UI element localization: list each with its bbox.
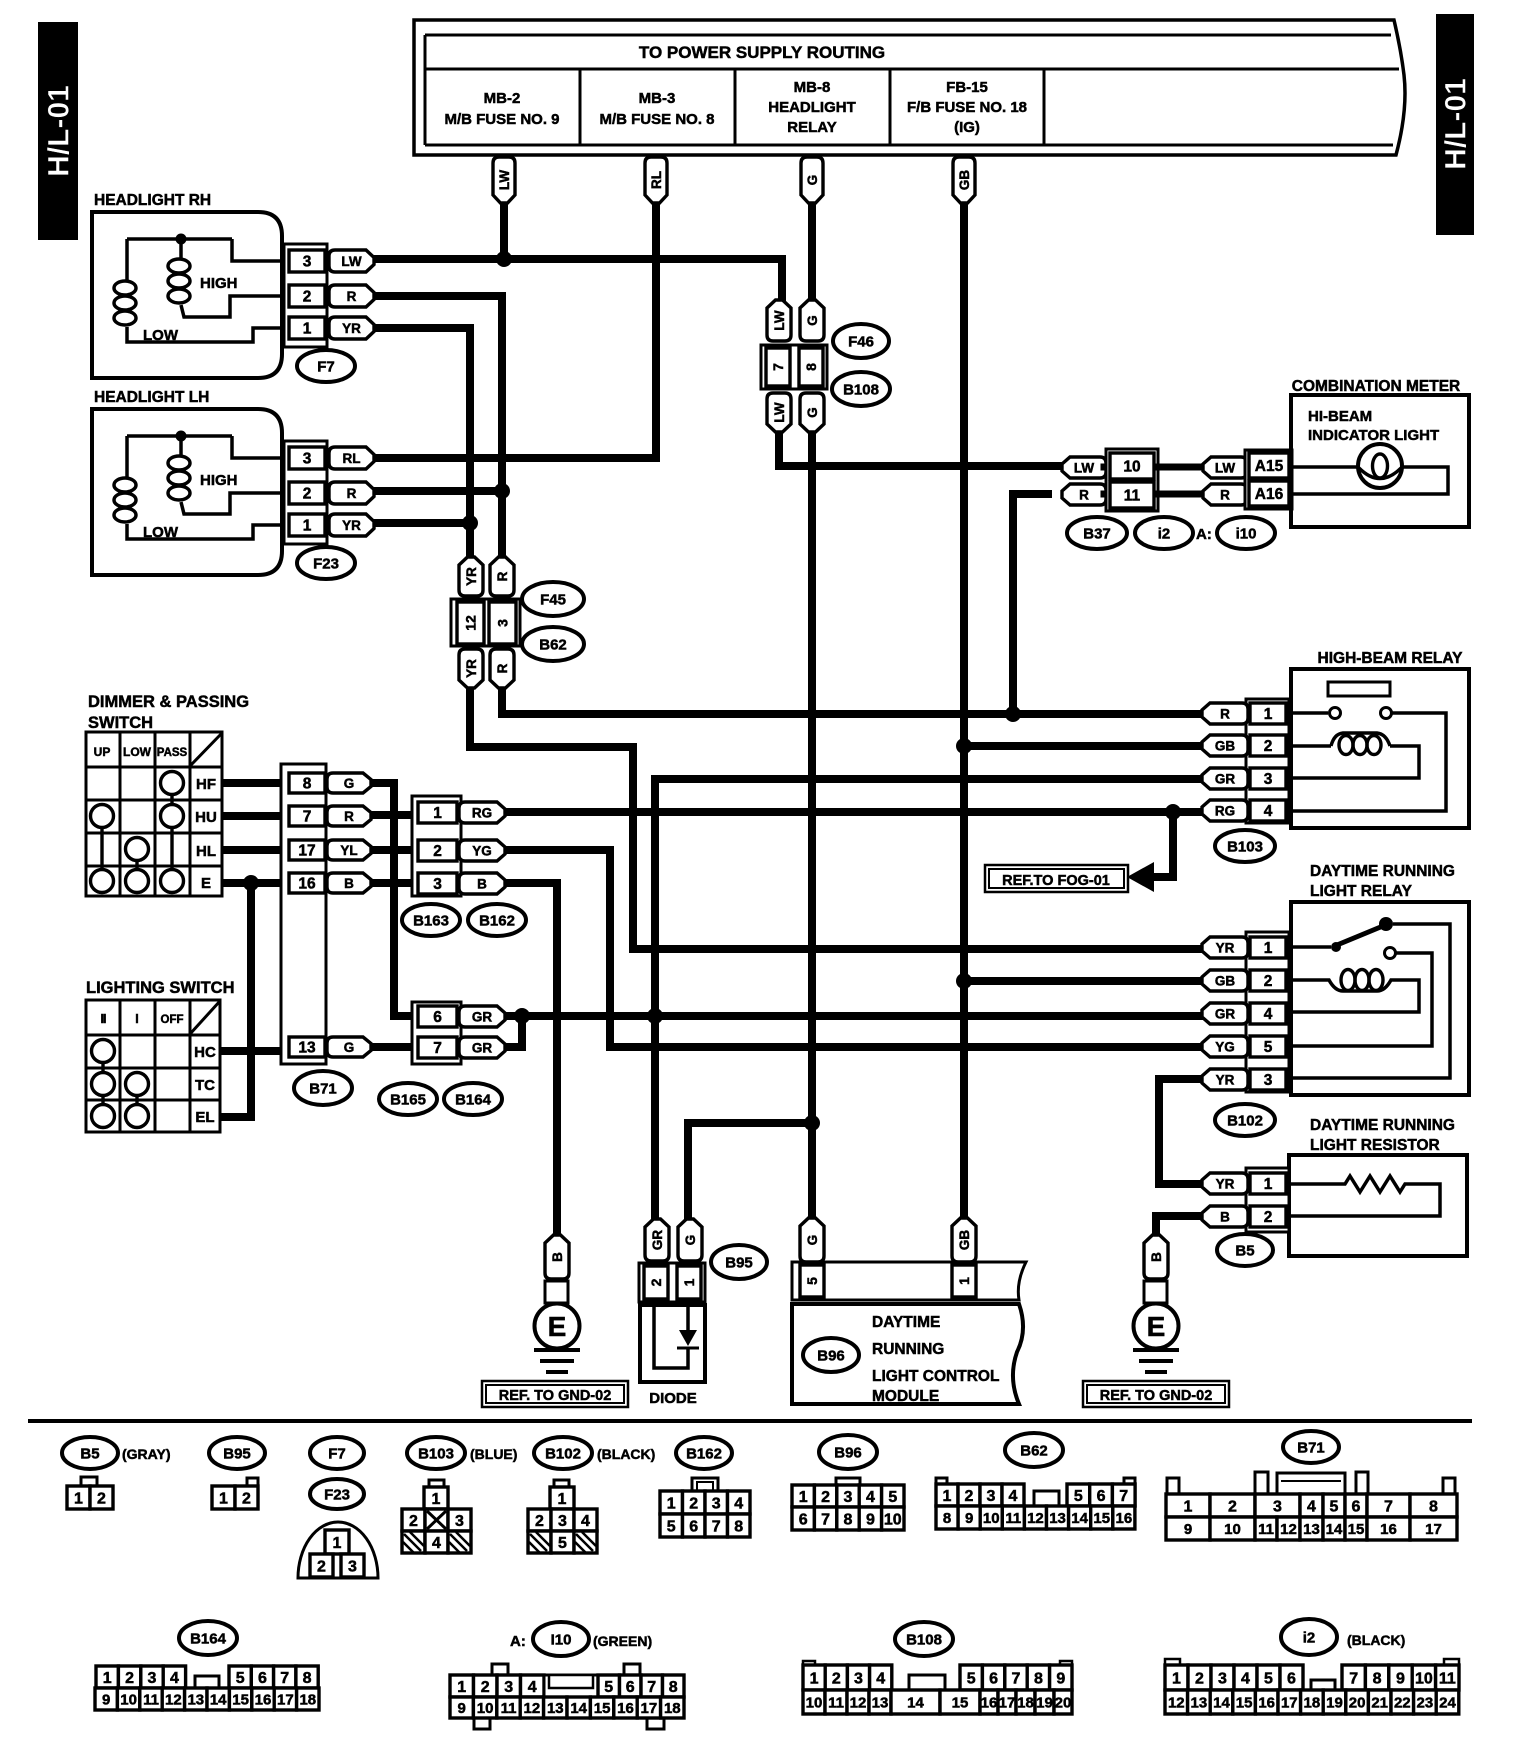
svg-text:YR: YR [342,321,361,336]
svg-text:REF.TO FOG-01: REF.TO FOG-01 [1002,873,1110,889]
svg-text:6: 6 [1287,1670,1296,1687]
wire R from B71 pin7 to B163 pin1 [369,811,420,819]
svg-text:8: 8 [803,363,819,371]
svg-text:8: 8 [734,1518,743,1535]
junction LW [496,251,512,267]
svg-text:TO POWER SUPPLY ROUTING: TO POWER SUPPLY ROUTING [639,43,885,62]
svg-text:3: 3 [854,1670,863,1687]
svg-text:2: 2 [648,1278,664,1286]
svg-text:9: 9 [102,1691,110,1708]
svg-text:2: 2 [433,843,442,860]
svg-text:B162: B162 [686,1445,722,1462]
svg-text:19: 19 [1036,1694,1053,1711]
wire LW from B108 pin7 to combination meter pin10 [779,430,1064,466]
svg-text:5: 5 [1074,1488,1083,1505]
svg-text:5: 5 [558,1535,567,1552]
svg-text:23: 23 [1417,1694,1434,1711]
svg-text:LW: LW [1215,460,1236,475]
svg-text:1: 1 [433,805,442,822]
svg-text:5: 5 [1330,1498,1339,1515]
svg-text:6: 6 [989,1670,998,1687]
page tag H/L-01 right [1436,14,1474,235]
svg-text:B5: B5 [80,1445,99,1462]
svg-text:E: E [1147,1311,1166,1342]
svg-text:5: 5 [1264,1039,1273,1056]
headlight RH [92,192,374,382]
svg-text:LW: LW [497,170,512,191]
svg-text:REF. TO GND-02: REF. TO GND-02 [499,1388,612,1404]
connector B163/B162 [402,796,526,936]
svg-text:1: 1 [810,1670,819,1687]
svg-text:E: E [201,875,211,892]
label REF. TO GND-02 [482,1381,628,1407]
wire YR from daytime running light relay pin3 to resistor pin1 [1159,1079,1204,1184]
svg-text:LW: LW [1074,460,1095,475]
svg-text:2: 2 [535,1513,544,1530]
relay switch and coil [1291,924,1450,1078]
svg-text:1: 1 [1264,1176,1273,1193]
connector B103 cells [1246,699,1289,823]
svg-text:7: 7 [1119,1488,1128,1505]
svg-text:(BLACK): (BLACK) [1347,1632,1405,1648]
svg-text:20: 20 [1349,1694,1366,1711]
svg-text:1: 1 [1264,940,1273,957]
svg-text:HF: HF [196,776,216,793]
wire YR from headlight LH pin1 [372,519,470,527]
wire GB from FB-15 down to DRL control module pin1 [960,202,968,1220]
wire R from headlight LH pin2 [372,487,502,495]
svg-text:17: 17 [1281,1694,1298,1711]
legend connector B162 [660,1437,750,1537]
wire YL from B71 pin17 to B163 pin2 [369,846,420,854]
svg-text:G: G [805,407,820,418]
svg-text:16: 16 [1380,1521,1397,1538]
svg-text:4: 4 [1264,803,1273,820]
svg-text:16: 16 [981,1694,998,1711]
svg-text:3: 3 [303,451,312,468]
svg-text:DIMMER & PASSING: DIMMER & PASSING [88,693,249,711]
headlight LH connector F23 [284,441,327,544]
svg-text:6: 6 [1097,1488,1106,1505]
svg-text:5: 5 [804,1277,820,1285]
svg-text:1: 1 [1184,1498,1193,1515]
svg-text:1: 1 [1172,1670,1181,1687]
svg-text:GR: GR [1215,771,1236,786]
svg-text:11: 11 [1005,1510,1021,1527]
legend connector B62 [936,1433,1135,1529]
svg-text:17: 17 [277,1691,294,1708]
svg-text:17: 17 [1425,1521,1442,1538]
svg-text:TC: TC [195,1077,215,1094]
svg-text:B71: B71 [1297,1439,1325,1456]
svg-text:8: 8 [844,1511,853,1528]
svg-text:RUNNING: RUNNING [872,1341,944,1358]
ground E [482,1235,628,1407]
svg-text:17: 17 [999,1694,1016,1711]
svg-text:7: 7 [280,1670,289,1687]
svg-text:7: 7 [1012,1670,1021,1687]
svg-text:PASS: PASS [157,747,188,759]
svg-text:GB: GB [957,1230,972,1251]
svg-text:19: 19 [1326,1694,1343,1711]
svg-text:2: 2 [317,1558,326,1575]
wire lighting switch HC to B71 pin13 [220,1047,289,1055]
svg-text:HIGH: HIGH [200,275,238,292]
svg-text:OFF: OFF [161,1014,184,1026]
wire GR from B164 pin6 to daytime running light relay pin4 [503,1012,1204,1020]
svg-text:11: 11 [1258,1521,1274,1538]
svg-text:3: 3 [558,1513,567,1530]
svg-text:M/B FUSE NO. 8: M/B FUSE NO. 8 [599,111,714,128]
svg-text:1: 1 [681,1278,697,1286]
svg-text:LOW: LOW [143,524,179,541]
svg-text:10: 10 [806,1694,823,1711]
svg-text:13: 13 [187,1691,204,1708]
svg-text:7: 7 [821,1511,830,1528]
svg-text:1: 1 [303,518,312,535]
svg-text:10: 10 [477,1700,494,1717]
svg-text:6: 6 [626,1679,635,1696]
junction GB daytime [956,973,972,989]
svg-text:20: 20 [1055,1694,1072,1711]
svg-text:3: 3 [1273,1498,1282,1515]
svg-text:B62: B62 [1020,1442,1048,1459]
page tag H/L-01 left [38,22,78,240]
svg-text:14: 14 [570,1700,587,1717]
svg-text:10: 10 [983,1510,1000,1527]
wire RL from MB-3 to headlight LH pin3 [372,202,656,458]
svg-text:1: 1 [219,1490,228,1507]
svg-text:16: 16 [1258,1694,1275,1711]
svg-text:F23: F23 [324,1486,350,1503]
svg-text:R: R [495,571,510,581]
svg-text:10: 10 [1123,459,1140,476]
svg-text:B95: B95 [223,1445,251,1462]
legend connector F7/F23 [298,1437,378,1578]
svg-text:3: 3 [348,1558,357,1575]
svg-text:1: 1 [74,1490,83,1507]
legend connector B103 (BLUE) [402,1437,517,1553]
svg-text:B102: B102 [1227,1112,1263,1129]
svg-text:G: G [805,315,820,326]
svg-text:10: 10 [1224,1521,1241,1538]
wire G from MB-8 to F46 pin8 [808,202,816,302]
svg-text:3: 3 [455,1513,464,1530]
resistor element [1289,1176,1440,1216]
svg-text:16: 16 [255,1691,272,1708]
svg-text:1: 1 [333,1535,342,1552]
wire R branch up to combination meter pin11 [1013,494,1048,714]
svg-text:3: 3 [712,1495,721,1512]
svg-text:LOW: LOW [143,327,179,344]
svg-text:B71: B71 [309,1080,337,1097]
svg-text:2: 2 [689,1495,698,1512]
svg-text:1: 1 [799,1489,808,1506]
wire B from resistor pin2 to ground [1156,1216,1204,1234]
svg-text:12: 12 [165,1691,182,1708]
svg-text:i2: i2 [1303,1629,1316,1646]
svg-text:2: 2 [125,1670,134,1687]
combination meter [1291,378,1469,527]
connector F45/B62 [451,557,584,688]
svg-text:A16: A16 [1255,486,1284,503]
svg-text:13: 13 [1049,1510,1066,1527]
svg-text:A:: A: [1196,526,1212,543]
svg-text:(BLUE): (BLUE) [470,1446,517,1462]
svg-text:G: G [805,1235,820,1246]
svg-text:2: 2 [1264,973,1273,990]
svg-text:12: 12 [1168,1694,1185,1711]
svg-text:DAYTIME: DAYTIME [872,1314,940,1331]
svg-text:RELAY: RELAY [787,119,836,136]
daytime running light relay [1202,863,1469,1136]
svg-text:4: 4 [866,1489,875,1506]
svg-text:i2: i2 [1158,525,1171,542]
svg-text:B96: B96 [817,1347,845,1364]
svg-text:7: 7 [303,809,312,826]
svg-text:2: 2 [97,1490,106,1507]
svg-text:YR: YR [464,659,479,678]
junction RG fog branch [1165,804,1181,820]
connector B5 cells [1246,1168,1289,1232]
svg-text:4: 4 [432,1535,441,1552]
svg-text:18: 18 [299,1691,316,1708]
junction R at headlight LH pin2 [494,483,510,499]
svg-text:B102: B102 [545,1445,581,1462]
svg-text:LIGHT RESISTOR: LIGHT RESISTOR [1310,1137,1440,1154]
svg-text:11: 11 [501,1700,517,1717]
svg-text:YR: YR [464,567,479,586]
legend connector B5 (GRAY) [62,1437,171,1509]
svg-text:6: 6 [433,1009,442,1026]
svg-text:INDICATOR LIGHT: INDICATOR LIGHT [1308,427,1439,444]
svg-text:8: 8 [943,1510,951,1527]
legend connector I10 (GREEN) [450,1622,684,1729]
svg-text:9: 9 [965,1510,973,1527]
svg-text:GR: GR [650,1230,665,1251]
svg-text:18: 18 [1304,1694,1321,1711]
svg-text:B62: B62 [539,636,567,653]
svg-text:R: R [344,809,354,824]
svg-text:DIODE: DIODE [649,1390,697,1407]
wire G from B71 pin8 to B164 pin6 [369,783,414,1016]
svg-text:3: 3 [504,1679,513,1696]
svg-text:(IG): (IG) [954,119,980,136]
separator line [28,1419,1472,1423]
svg-text:3: 3 [1218,1670,1227,1687]
wire G branch to diode pin1 [688,1123,812,1221]
lighting switch [86,979,234,1132]
svg-text:HEADLIGHT RH: HEADLIGHT RH [94,192,211,209]
svg-text:B103: B103 [1227,838,1263,855]
svg-text:15: 15 [1236,1694,1253,1711]
svg-text:UP: UP [94,745,111,759]
svg-text:DAYTIME RUNNING: DAYTIME RUNNING [1310,1117,1455,1134]
svg-text:G: G [683,1235,698,1246]
svg-text:13: 13 [1303,1521,1320,1538]
wire E down to lighting switch EL [220,883,251,1117]
diode symbol [654,1302,688,1368]
svg-text:HC: HC [194,1044,216,1061]
svg-text:4: 4 [170,1670,179,1687]
svg-text:R: R [1220,706,1230,721]
svg-text:2: 2 [821,1489,830,1506]
legend connector B108 [803,1622,1072,1714]
svg-text:HI-BEAM: HI-BEAM [1308,408,1372,425]
svg-text:B: B [550,1252,565,1262]
legend connector i2 (BLACK) [1165,1619,1459,1714]
svg-text:4: 4 [581,1513,590,1530]
connector B71 (switch side) [281,764,371,1105]
svg-text:7: 7 [770,363,786,371]
svg-text:YR: YR [1216,1176,1235,1191]
svg-text:4: 4 [1264,1006,1273,1023]
svg-text:3: 3 [1264,1072,1273,1089]
svg-text:17: 17 [298,843,315,860]
svg-text:17: 17 [641,1700,658,1717]
junction G / diode branch [804,1115,820,1131]
svg-text:14: 14 [210,1691,227,1708]
svg-text:11: 11 [1439,1670,1456,1687]
wire YR from B62 pin12 to daytime running light relay pin1 [470,686,1204,949]
svg-text:15: 15 [952,1694,969,1711]
svg-text:15: 15 [1093,1510,1110,1527]
svg-text:B95: B95 [725,1254,753,1271]
svg-text:7: 7 [1349,1670,1358,1687]
svg-text:M/B FUSE NO. 9: M/B FUSE NO. 9 [444,111,559,128]
svg-text:LW: LW [341,254,362,269]
junction R to combination meter branch [1005,706,1021,722]
svg-text:F46: F46 [848,333,874,350]
legend connector B164 [95,1621,319,1710]
svg-text:LIGHTING SWITCH: LIGHTING SWITCH [86,979,234,997]
svg-text:R: R [347,486,357,501]
wire YR from headlight RH pin1 down to F45 pin12 [372,328,470,559]
svg-text:H/L-01: H/L-01 [43,85,76,177]
svg-text:GR: GR [1215,1006,1236,1021]
svg-text:COMBINATION METER: COMBINATION METER [1292,378,1460,395]
svg-text:B108: B108 [906,1631,942,1648]
svg-text:13: 13 [298,1040,316,1057]
svg-text:5: 5 [604,1679,613,1696]
svg-text:B165: B165 [390,1091,426,1108]
svg-text:9: 9 [1184,1521,1192,1538]
svg-text:6: 6 [258,1670,267,1687]
svg-text:RL: RL [649,171,664,189]
svg-text:B164: B164 [455,1091,492,1108]
svg-text:1: 1 [1264,706,1273,723]
headlight LH [92,389,374,579]
svg-text:4: 4 [528,1679,537,1696]
svg-text:MB-2: MB-2 [484,90,521,107]
svg-text:LW: LW [772,310,787,331]
wire GR from B164 pin7 [503,1016,522,1047]
svg-text:5: 5 [667,1518,676,1535]
svg-text:2: 2 [1264,1209,1273,1226]
svg-text:11: 11 [828,1694,844,1711]
svg-text:HIGH: HIGH [200,472,238,489]
svg-text:22: 22 [1394,1694,1411,1711]
svg-text:HEADLIGHT: HEADLIGHT [768,99,856,116]
svg-text:14: 14 [1326,1521,1343,1538]
connector B165/B164 [379,1002,505,1115]
svg-text:13: 13 [872,1694,889,1711]
svg-text:F23: F23 [313,555,339,572]
svg-text:12: 12 [850,1694,867,1711]
svg-text:16: 16 [1116,1510,1133,1527]
svg-text:1: 1 [943,1488,952,1505]
svg-text:1: 1 [303,321,312,338]
svg-text:14: 14 [1071,1510,1088,1527]
svg-text:F7: F7 [328,1445,346,1462]
svg-text:(GREEN): (GREEN) [593,1633,652,1649]
junction YR at headlight LH pin1 [462,515,478,531]
svg-text:12: 12 [1280,1521,1297,1538]
svg-text:MB-8: MB-8 [794,79,831,96]
svg-text:HL: HL [196,843,216,860]
svg-text:(GRAY): (GRAY) [122,1446,171,1462]
svg-text:12: 12 [524,1700,541,1717]
diode [639,1219,767,1407]
svg-text:13: 13 [547,1700,564,1717]
svg-text:1: 1 [667,1495,676,1512]
svg-text:10: 10 [884,1511,902,1528]
wire G from B71 pin13 to B164 pin7 [369,1043,414,1051]
svg-text:6: 6 [1352,1498,1361,1515]
svg-text:G: G [344,776,355,791]
wire B from B71 pin16 to B163 pin3 [369,879,420,887]
svg-text:B5: B5 [1235,1242,1254,1259]
svg-text:LIGHT RELAY: LIGHT RELAY [1310,883,1413,900]
svg-text:REF. TO GND-02: REF. TO GND-02 [1100,1388,1213,1404]
svg-text:6: 6 [799,1511,808,1528]
svg-text:R: R [1079,487,1089,502]
svg-text:4: 4 [876,1670,885,1687]
wire dimmer switch HL to B71 pin17 [222,846,289,854]
svg-text:I10: I10 [551,1631,572,1648]
wire R from B62 pin3 to high-beam relay pin1 [502,686,1204,714]
high-beam relay [1202,650,1469,862]
svg-text:FB-15: FB-15 [946,79,988,96]
svg-text:1: 1 [558,1491,567,1508]
svg-text:G: G [344,1040,355,1055]
svg-text:2: 2 [1195,1670,1204,1687]
svg-text:RG: RG [472,805,492,820]
svg-text:SWITCH: SWITCH [88,714,153,732]
svg-text:B: B [344,876,354,891]
svg-text:8: 8 [1373,1670,1382,1687]
svg-text:3: 3 [844,1489,853,1506]
arrowhead REF.TO FOG-01 [1127,862,1154,892]
svg-text:12: 12 [463,615,479,631]
svg-text:8: 8 [303,776,312,793]
svg-text:B37: B37 [1083,525,1111,542]
svg-text:2: 2 [481,1679,490,1696]
junction GB high-beam [956,738,972,754]
svg-text:E: E [548,1311,567,1342]
svg-text:LW: LW [772,402,787,423]
svg-text:2: 2 [1264,738,1273,755]
svg-text:5: 5 [888,1489,897,1506]
svg-text:YR: YR [1216,940,1235,955]
svg-text:7: 7 [647,1679,656,1696]
connector B37/i2 to combination meter [1062,449,1292,549]
svg-text:YL: YL [340,843,357,858]
svg-text:7: 7 [1384,1498,1393,1515]
svg-text:2: 2 [965,1488,974,1505]
svg-text:6: 6 [689,1518,698,1535]
dimmer and passing switch [86,693,249,896]
